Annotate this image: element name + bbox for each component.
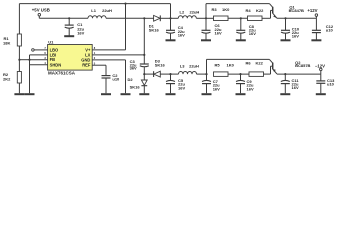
svg-text:R6: R6 <box>246 60 252 65</box>
resistor R3 <box>206 7 230 20</box>
wire Q1 emitter +12V <box>277 17 316 19</box>
svg-text:BC847B: BC847B <box>289 8 304 13</box>
terminal +12V <box>307 8 317 18</box>
svg-text:1K0: 1K0 <box>227 62 235 67</box>
svg-text:1K0: 1K0 <box>222 7 230 12</box>
svg-text:16V: 16V <box>292 33 299 38</box>
resistor R1 <box>3 34 21 46</box>
wire LX <box>92 54 144 56</box>
capacitor C8 <box>236 18 256 36</box>
resistor R2 <box>3 72 21 84</box>
wire LX riser <box>143 18 145 55</box>
capacitor C6 <box>202 18 222 35</box>
node C7 junction <box>205 73 207 75</box>
inductor L3 <box>171 64 207 75</box>
wire Q2 emitter -12V <box>277 73 321 75</box>
wire riser to bottom rail <box>206 59 208 74</box>
wire +5V input <box>39 17 88 19</box>
capacitor C3 <box>130 55 149 74</box>
capacitor C12 <box>312 18 334 32</box>
pin SHDN <box>30 61 62 67</box>
node rail to V+ riser junction <box>124 3 126 5</box>
ground C13 <box>316 83 326 94</box>
node C1 junction <box>68 17 70 19</box>
ground R2 <box>14 83 24 94</box>
node C9 junction <box>239 73 241 75</box>
pin LX <box>85 51 96 57</box>
ground C6 <box>201 33 211 40</box>
svg-text:SK16: SK16 <box>130 85 141 90</box>
capacitor C5 <box>166 74 185 90</box>
capacitor C4 <box>166 18 185 37</box>
svg-text:D2: D2 <box>128 77 134 82</box>
svg-text:16V: 16V <box>247 86 254 91</box>
svg-text:u10: u10 <box>327 81 335 86</box>
svg-text:+5V USB: +5V USB <box>32 7 50 12</box>
transistor Q1 BC847B <box>269 4 304 19</box>
node LX junction <box>143 54 145 56</box>
terminal -12V <box>315 63 325 74</box>
ground C1 <box>64 28 74 36</box>
wire GND pin <box>92 59 125 61</box>
svg-text:16V: 16V <box>215 31 222 36</box>
node C5 junction <box>169 73 171 75</box>
resistor R4 <box>246 8 265 21</box>
ground C10 <box>281 33 291 40</box>
svg-text:GND: GND <box>81 57 90 62</box>
pin V+ <box>85 46 96 52</box>
wire R6 to Q2 base <box>264 66 273 74</box>
wire riser to top rail <box>205 4 207 19</box>
resistor R6 <box>246 60 264 76</box>
capacitor C11 <box>281 74 300 90</box>
capacitor C1 <box>65 18 85 35</box>
svg-text:16V: 16V <box>249 31 256 36</box>
svg-text:22uH: 22uH <box>102 8 112 13</box>
svg-text:22uH: 22uH <box>189 64 199 69</box>
capacitor C2 <box>102 65 121 81</box>
node C8 junction <box>240 17 242 19</box>
op-amp U1 MAX761CSA body <box>48 39 93 75</box>
svg-text:u10: u10 <box>326 27 334 32</box>
svg-text:MAX761CSA: MAX761CSA <box>48 71 76 76</box>
svg-text:R5: R5 <box>215 62 221 67</box>
capacitor C10 <box>281 18 300 38</box>
svg-text:16V: 16V <box>178 32 185 37</box>
svg-text:16V: 16V <box>77 31 84 36</box>
inductor L1 <box>88 8 112 18</box>
inductor L2 <box>171 9 207 18</box>
ground C5 <box>166 84 176 95</box>
wire V+ bootstrap <box>92 4 125 50</box>
diode D2 SK16 <box>128 74 148 90</box>
ground D2 <box>139 86 149 95</box>
ground C12 <box>311 33 321 41</box>
svg-text:2K2: 2K2 <box>3 76 11 81</box>
svg-text:L2: L2 <box>180 9 185 14</box>
wire L1 to LX node <box>106 17 144 19</box>
ground C4 <box>166 33 176 40</box>
svg-text:22uH: 22uH <box>190 9 200 14</box>
svg-text:K22: K22 <box>256 60 264 65</box>
node C6 junction <box>205 17 207 19</box>
wire R5 to R6 <box>228 73 249 75</box>
svg-text:R3: R3 <box>212 7 218 12</box>
node C11 junction <box>284 73 286 75</box>
wire divider to FB <box>19 59 29 61</box>
svg-text:SHDN: SHDN <box>50 62 62 67</box>
svg-text:36V: 36V <box>130 66 137 71</box>
svg-text:16V: 16V <box>178 85 185 90</box>
svg-text:L3: L3 <box>180 64 185 69</box>
svg-text:−12V: −12V <box>315 63 325 68</box>
svg-text:18K: 18K <box>3 40 10 45</box>
capacitor C7 <box>202 74 220 91</box>
ground SHDN FB vertical <box>25 93 35 95</box>
svg-text:BC857B: BC857B <box>295 63 310 68</box>
wire R4 to Q1 base <box>262 10 272 18</box>
node FB junction <box>28 59 30 61</box>
transistor Q2 BC857B <box>269 59 310 74</box>
wire -12V collector rail <box>207 58 270 60</box>
svg-text:16V: 16V <box>213 86 220 91</box>
diode D1 SK16 <box>144 15 170 32</box>
node C10 junction <box>284 17 286 19</box>
pin LBI <box>30 51 57 57</box>
wire R1 top lead <box>18 4 20 34</box>
svg-text:16V: 16V <box>292 85 299 90</box>
node A junction <box>143 73 145 75</box>
pin FB <box>30 56 56 62</box>
ground C11 <box>280 84 290 95</box>
ground C7 <box>202 84 212 95</box>
pin GND <box>81 56 96 62</box>
svg-text:SK16: SK16 <box>149 27 160 32</box>
wire R1 to R2 <box>18 46 20 72</box>
pin LBO open <box>32 46 59 52</box>
svg-text:R4: R4 <box>246 8 252 13</box>
svg-text:SK16: SK16 <box>155 63 166 68</box>
capacitor C13 <box>316 74 335 86</box>
wire LBI jog <box>29 55 31 93</box>
node D1 anode junction <box>143 17 145 19</box>
ground C2 <box>101 78 111 94</box>
ground GND pin <box>121 60 131 94</box>
resistor R5 <box>214 62 235 76</box>
svg-text:u10: u10 <box>112 76 120 81</box>
svg-text:L1: L1 <box>91 8 96 13</box>
wire +12V collector rail <box>206 3 269 5</box>
ground C9 <box>236 84 246 95</box>
svg-text:U1: U1 <box>48 39 54 44</box>
diode D3 SK16 <box>144 59 170 77</box>
svg-text:REF: REF <box>82 63 91 68</box>
wire REF <box>92 64 106 66</box>
capacitor C9 <box>236 74 254 91</box>
ground C8 <box>236 33 246 40</box>
terminal +5V USB <box>32 7 50 18</box>
node divider junction <box>18 59 20 61</box>
node D1 cathode junction <box>169 4 171 20</box>
wire +12V raw bootstrap rail <box>19 3 170 5</box>
pin REF <box>82 61 96 67</box>
svg-text:+12V: +12V <box>307 8 317 13</box>
wire R3 to R4 <box>228 17 248 19</box>
svg-text:K22: K22 <box>256 8 264 13</box>
